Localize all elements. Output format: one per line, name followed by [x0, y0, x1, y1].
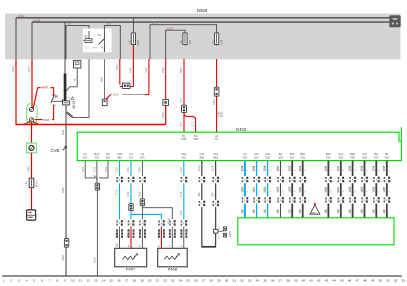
svg-text:1: 1 [379, 191, 381, 193]
fuse EB1 [184, 32, 186, 46]
connector (ground merge) [95, 183, 99, 190]
wire 3417 (red) [31, 59, 33, 108]
svg-text:9000: 9000 [62, 255, 65, 261]
svg-text:32Y: 32Y [254, 155, 259, 159]
wire 32Vb (dark) [291, 161, 293, 218]
svg-text:P468: P468 [168, 267, 178, 272]
label 1010 [41, 85, 51, 88]
ruler line [2, 275, 402, 277]
switch contact B7 [51, 97, 54, 104]
svg-text:9: 9 [64, 278, 66, 282]
svg-text:18: 18 [133, 278, 137, 282]
svg-text:41: 41 [309, 278, 313, 282]
label 1204 [112, 93, 122, 96]
fuse EF16 [29, 178, 34, 187]
svg-text:3B1: 3B1 [117, 155, 122, 159]
svg-text:2: 2 [389, 169, 391, 171]
svg-text:32B: 32B [362, 155, 367, 159]
svg-text:3ZD: 3ZD [242, 155, 247, 159]
svg-text:D929: D929 [197, 8, 208, 13]
svg-text:D402: D402 [236, 127, 247, 132]
svg-text:2: 2 [283, 169, 285, 171]
svg-text:35: 35 [263, 278, 267, 282]
wire heavy supply [64, 59, 66, 74]
wire right bundle 2 (dark) [340, 161, 342, 218]
svg-text:3B5: 3B5 [199, 155, 204, 159]
battery A1 [27, 210, 36, 220]
wire right bundle 1 (dark) [327, 161, 329, 218]
wire P467 pin1 drop (red) [130, 227, 132, 249]
svg-text:C4V: C4V [362, 152, 367, 156]
svg-text:C040: C040 [219, 111, 221, 117]
svg-text:7: 7 [169, 245, 171, 248]
svg-text:B71: B71 [83, 155, 88, 159]
svg-text:1304: 1304 [162, 112, 165, 118]
svg-text:1C51: 1C51 [254, 186, 256, 192]
wire 1030 lower (red) [31, 153, 33, 178]
svg-text:3: 3 [18, 278, 20, 282]
svg-text:C1Z: C1Z [213, 152, 218, 156]
svg-text:C14: C14 [199, 152, 204, 156]
wire 1204 link [111, 94, 149, 96]
wire to battery (red) [31, 188, 33, 210]
svg-text:1117: 1117 [180, 121, 183, 127]
wire 2040 (down) [65, 105, 67, 276]
wire 3B5 left [201, 161, 203, 247]
svg-text:11: 11 [79, 278, 82, 282]
wire pin A2 drop [85, 161, 95, 178]
svg-text:3716: 3716 [117, 167, 119, 173]
svg-text:3726: 3726 [265, 165, 267, 171]
svg-text:31: 31 [232, 278, 236, 282]
svg-text:15A: 15A [129, 40, 132, 45]
svg-text:32: 32 [240, 278, 244, 282]
row1 sym 215 [214, 176, 217, 183]
svg-text:1C53: 1C53 [278, 186, 280, 192]
wire 1117 left (red) [183, 112, 185, 132]
svg-text:52: 52 [394, 278, 398, 282]
svg-text:1C5: 1C5 [290, 209, 292, 214]
svg-text:32D: 32D [300, 155, 305, 159]
svg-text:9150: 9150 [106, 166, 108, 172]
fuse E150 [216, 32, 218, 46]
svg-text:1: 1 [219, 227, 221, 229]
svg-text:2: 2 [10, 278, 12, 282]
wire 2943 (red) [165, 59, 167, 100]
connector box (wire 4501) [102, 99, 107, 105]
svg-text:1: 1 [181, 245, 183, 248]
svg-text:1C6: 1C6 [350, 209, 352, 214]
relay coil K1 [88, 31, 90, 39]
svg-text:87B: 87B [181, 137, 186, 141]
svg-text:B4D: B4D [300, 152, 305, 156]
connector pin circle B (key) [29, 118, 33, 122]
svg-text:1: 1 [283, 191, 285, 193]
svg-text:3733: 3733 [362, 165, 364, 171]
svg-text:1C55: 1C55 [300, 186, 302, 192]
svg-text:A2: A2 [84, 152, 88, 156]
wire P467 pin2 drop [119, 227, 121, 249]
svg-text:87B: 87B [193, 137, 198, 141]
svg-text:1C50: 1C50 [242, 186, 244, 192]
svg-text:4405: 4405 [213, 99, 216, 105]
svg-text:3731: 3731 [338, 165, 340, 171]
svg-text:51: 51 [386, 278, 390, 282]
wire cyan branch to P468 [131, 214, 161, 219]
wire pin B4V drop [96, 161, 98, 184]
wire ignition feed (in band) [15, 18, 17, 60]
svg-text:1506: 1506 [43, 118, 50, 122]
svg-text:1C6: 1C6 [374, 209, 376, 214]
relay housing (white) [83, 29, 112, 53]
svg-text:1117: 1117 [192, 121, 195, 127]
row3 sym 142 [141, 219, 144, 226]
svg-text:1: 1 [247, 191, 249, 193]
svg-text:10A: 10A [212, 40, 215, 45]
svg-text:B4V: B4V [94, 152, 99, 156]
row3 sym 161 [160, 219, 163, 226]
wire 3410 (red) [15, 59, 17, 125]
svg-text:32D: 32D [350, 155, 355, 159]
svg-text:1030: 1030 [28, 166, 31, 172]
svg-text:2: 2 [294, 169, 296, 171]
svg-text:9032: 9032 [290, 165, 292, 171]
svg-text:7342: 7342 [145, 67, 148, 73]
wire 32Dd (dark) [302, 161, 304, 218]
svg-text:25: 25 [186, 278, 190, 282]
svg-text:50: 50 [379, 278, 383, 282]
svg-text:1: 1 [331, 191, 333, 193]
svg-text:1: 1 [305, 191, 307, 193]
svg-text:1C6: 1C6 [338, 209, 340, 214]
connector C075 [223, 227, 226, 231]
svg-text:601A: 601A [93, 257, 96, 263]
svg-text:3Z1: 3Z1 [181, 155, 186, 159]
svg-text:B4: B4 [279, 152, 283, 156]
svg-text:1117: 1117 [180, 97, 183, 103]
svg-text:17: 17 [125, 278, 129, 282]
wire 3Z1b (cyan) [183, 161, 185, 227]
row2 sym 215 [214, 200, 217, 207]
svg-text:2: 2 [305, 169, 307, 171]
svg-text:3417: 3417 [27, 66, 31, 72]
connector D402 (green box) [77, 132, 401, 160]
svg-text:9150: 9150 [95, 166, 97, 172]
wire 7342 (red) [148, 59, 150, 95]
svg-text:1C54: 1C54 [290, 186, 292, 192]
wire relay contact feed [72, 59, 89, 117]
svg-text:C1V: C1V [254, 152, 259, 156]
svg-text:C4: C4 [243, 152, 247, 156]
svg-text:21: 21 [156, 278, 160, 282]
actuator P467 [115, 248, 147, 266]
svg-text:7: 7 [49, 278, 51, 282]
svg-text:2: 2 [367, 169, 369, 171]
svg-text:3732: 3732 [350, 165, 352, 171]
svg-text:1C5: 1C5 [265, 209, 267, 214]
svg-text:47: 47 [356, 278, 360, 282]
connector (wire 9943) [182, 105, 187, 112]
svg-text:10: 10 [71, 278, 75, 282]
svg-text:1C5: 1C5 [254, 209, 256, 214]
wire right bundle 4 (dark) [364, 161, 366, 218]
svg-text:2: 2 [247, 169, 249, 171]
svg-text:A007: A007 [67, 22, 74, 26]
wire 3B5 right [215, 161, 217, 247]
fuse EB27 [132, 32, 134, 46]
wire P468 pin1 drop (red) [160, 227, 162, 249]
svg-text:3B5: 3B5 [213, 155, 218, 159]
svg-text:2B5: 2B5 [199, 192, 201, 197]
svg-text:3718: 3718 [181, 191, 183, 197]
svg-text:1: 1 [355, 191, 357, 193]
svg-text:EB1: EB1 [189, 39, 192, 44]
connector (wire 3Z1) [140, 199, 144, 206]
svg-text:36: 36 [271, 278, 275, 282]
svg-text:3716: 3716 [117, 189, 119, 195]
svg-text:32D: 32D [384, 155, 389, 159]
wire 3ZD (cyan thick) [244, 161, 246, 218]
svg-text:2: 2 [355, 169, 357, 171]
svg-text:4501: 4501 [101, 76, 104, 82]
wire key to main (red) [16, 122, 31, 125]
svg-text:1C5: 1C5 [242, 209, 244, 214]
svg-text:1: 1 [139, 245, 141, 248]
svg-text:CVB: CVB [51, 148, 60, 153]
label 1506 [42, 118, 52, 121]
row1 sym 201 [200, 176, 203, 183]
wire EB27 link (red) [120, 86, 134, 88]
svg-text:24: 24 [179, 278, 183, 282]
row3 sym 183 [182, 219, 185, 226]
svg-text:1: 1 [270, 191, 272, 193]
svg-text:32Y: 32Y [129, 155, 134, 159]
svg-text:P467: P467 [126, 267, 136, 272]
svg-text:32D: 32D [278, 155, 283, 159]
svg-text:1C62: 1C62 [350, 186, 352, 192]
svg-text:1C65: 1C65 [384, 186, 386, 192]
svg-text:B4V: B4V [326, 152, 331, 156]
svg-text:9036: 9036 [140, 191, 142, 197]
svg-text:5: 5 [33, 278, 35, 282]
svg-text:1143: 1143 [129, 67, 132, 73]
wire P468 pin3 drop [183, 227, 185, 249]
svg-text:B2V: B2V [290, 152, 295, 156]
svg-text:15: 15 [109, 278, 113, 282]
svg-text:1204: 1204 [112, 93, 119, 97]
svg-text:EB27: EB27 [137, 39, 140, 46]
svg-text:2: 2 [158, 245, 160, 248]
wire switch to relay coil [53, 100, 63, 102]
svg-text:1: 1 [343, 191, 345, 193]
svg-text:45: 45 [340, 278, 344, 282]
svg-text:3038: 3038 [34, 18, 41, 22]
svg-text:29: 29 [217, 278, 221, 282]
wire main red vertical [165, 105, 167, 124]
wire 3Z1 (dark) [141, 161, 143, 227]
wire 1117 right (red) [184, 115, 196, 133]
svg-text:2B5: 2B5 [213, 192, 215, 197]
wire 45 branch connector [74, 60, 81, 68]
wire 32Dc (dark) [280, 161, 282, 218]
connector pin circle A (key) [29, 108, 33, 112]
svg-text:32A: 32A [326, 155, 331, 159]
svg-text:20: 20 [148, 278, 152, 282]
box 111B outline [104, 26, 120, 60]
svg-text:32D: 32D [338, 155, 343, 159]
row1 sym 183 [182, 176, 185, 183]
svg-text:48: 48 [363, 278, 367, 282]
svg-text:32V: 32V [106, 155, 111, 159]
svg-text:B2: B2 [55, 95, 59, 98]
svg-text:32D: 32D [94, 155, 99, 159]
warning triangle [310, 205, 320, 214]
wire right bundle 6 (dark) [386, 161, 388, 218]
relay coil 6015 [63, 101, 70, 105]
relay contact K1 [103, 34, 105, 39]
wire 9943 (red) [183, 59, 185, 105]
svg-text:16: 16 [117, 278, 121, 282]
svg-text:19: 19 [140, 278, 144, 282]
svg-text:3Z1: 3Z1 [140, 155, 145, 159]
wire 4501 drop [104, 59, 106, 99]
wire 32Db (cyan) [267, 161, 269, 218]
fuse box region (shaded) [5, 14, 401, 60]
wire U join [201, 246, 216, 248]
row3 sym 171 [171, 219, 174, 226]
row3 sym 131 [130, 219, 133, 226]
svg-text:9036: 9036 [140, 167, 142, 173]
svg-text:14: 14 [102, 278, 106, 282]
wire dark branch to P468 [142, 208, 172, 220]
svg-text:B2D: B2D [350, 152, 355, 156]
svg-text:30: 30 [225, 278, 229, 282]
svg-text:53: 53 [402, 278, 406, 282]
svg-text:1C5: 1C5 [278, 209, 280, 214]
svg-text:2: 2 [270, 169, 272, 171]
svg-text:C1V: C1V [338, 152, 343, 156]
svg-text:33: 33 [248, 278, 252, 282]
svg-text:87: 87 [215, 137, 218, 141]
wire 3B1 (cyan) [119, 161, 121, 227]
wire relay supply (in band) [64, 22, 66, 59]
svg-text:9031: 9031 [278, 165, 280, 171]
svg-text:4405: 4405 [116, 64, 119, 70]
svg-text:32D: 32D [265, 155, 270, 159]
svg-text:12: 12 [86, 278, 90, 282]
svg-text:1C63: 1C63 [362, 186, 364, 192]
svg-text:5000: 5000 [167, 26, 173, 30]
svg-text:3709: 3709 [128, 191, 130, 197]
svg-text:E150: E150 [220, 39, 223, 45]
wire 4405b (red) [216, 59, 218, 132]
svg-text:1010: 1010 [41, 85, 48, 89]
svg-text:2943: 2943 [162, 67, 165, 73]
svg-text:2: 2 [128, 245, 130, 248]
svg-text:2: 2 [331, 169, 333, 171]
svg-text:9943: 9943 [180, 67, 183, 73]
svg-text:9033: 9033 [300, 165, 302, 171]
svg-text:111B: 111B [106, 22, 112, 26]
svg-text:34: 34 [256, 278, 260, 282]
svg-text:2: 2 [379, 169, 381, 171]
wire to C075 [218, 230, 223, 232]
svg-text:26: 26 [194, 278, 198, 282]
svg-text:201B: 201B [213, 165, 215, 171]
splice (green) G010 [27, 143, 37, 153]
svg-text:8: 8 [56, 278, 58, 282]
svg-text:BG: BG [85, 36, 89, 39]
svg-text:42: 42 [317, 278, 321, 282]
svg-text:1C60: 1C60 [326, 186, 328, 192]
wire 601A (ground) [96, 190, 98, 276]
svg-text:3Z4: 3Z4 [181, 210, 183, 215]
svg-text:22: 22 [163, 278, 167, 282]
svg-text:950B: 950B [62, 187, 65, 193]
svg-text:CO: CO [98, 34, 102, 37]
connector outline (green) [27, 104, 37, 124]
svg-text:1: 1 [367, 191, 369, 193]
wire key feed (in band) [31, 22, 33, 59]
svg-text:1: 1 [3, 278, 5, 282]
svg-text:3725: 3725 [254, 165, 256, 171]
svg-text:EA50: EA50 [311, 211, 317, 214]
svg-text:C4: C4 [141, 152, 145, 156]
svg-text:3735: 3735 [384, 165, 386, 171]
svg-text:C075: C075 [229, 231, 232, 237]
actuator P468 [158, 248, 188, 266]
connector labels (motor feeds) [116, 229, 118, 231]
svg-text:40: 40 [302, 278, 306, 282]
svg-text:46: 46 [348, 278, 352, 282]
wire 1010 (red) [33, 88, 53, 109]
svg-text:3718: 3718 [181, 167, 183, 173]
svg-text:27: 27 [202, 278, 206, 282]
svg-text:3410: 3410 [11, 66, 15, 72]
wire EB27 out (red) [132, 46, 134, 87]
svg-text:3730: 3730 [326, 165, 328, 171]
svg-text:9050: 9050 [83, 166, 85, 172]
row1 sym 142 [141, 176, 144, 183]
svg-text:37: 37 [279, 278, 283, 282]
svg-text:B025: B025 [222, 111, 224, 117]
connector (main red) [163, 100, 169, 106]
svg-text:32V: 32V [290, 155, 295, 159]
svg-text:49: 49 [371, 278, 375, 282]
svg-text:1C52: 1C52 [265, 186, 267, 192]
svg-text:3709: 3709 [128, 167, 130, 173]
svg-text:13: 13 [94, 278, 98, 282]
connector D929 block [389, 15, 400, 27]
svg-text:C1D: C1D [181, 152, 186, 156]
svg-text:32V: 32V [374, 155, 379, 159]
svg-text:4: 4 [26, 278, 28, 282]
svg-text:B2: B2 [375, 152, 379, 156]
svg-text:1C5: 1C5 [300, 209, 302, 214]
svg-text:201A: 201A [198, 165, 201, 171]
svg-text:B2: B2 [106, 152, 110, 156]
svg-text:C2D: C2D [265, 152, 270, 156]
junction box (right door) [214, 229, 218, 233]
connector (EB27 link) [123, 83, 130, 88]
box A007 outline [66, 26, 89, 60]
wire bus 30 (top) [16, 17, 390, 19]
wire 32Yb (cyan) [256, 161, 258, 218]
svg-text:43: 43 [325, 278, 329, 282]
svg-text:1C61: 1C61 [338, 186, 340, 192]
svg-text:2: 2 [219, 238, 221, 240]
relay contact 6015 [66, 113, 72, 118]
